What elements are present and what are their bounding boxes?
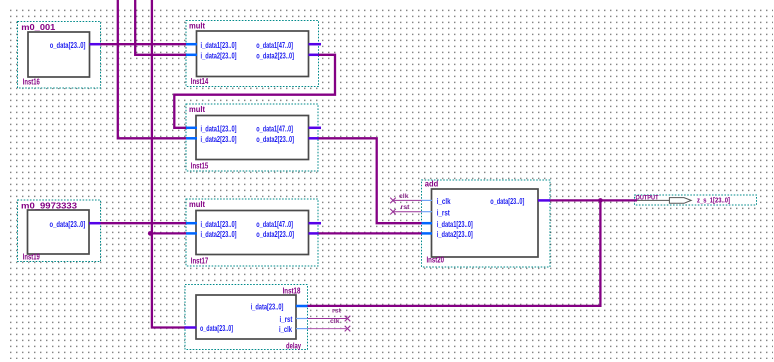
output stub Inst16.o_data [90,43,101,46]
wire Inst17.o_data2 to Inst20.i_data2 [318,232,422,234]
title mult (Inst15) [189,105,205,114]
label Inst20 [427,255,445,264]
input stub Inst14.i_data2 [186,54,197,57]
port texts Inst17 [201,220,295,239]
svg-text:add: add [425,180,439,189]
inner box of Inst17 [196,211,309,255]
block Inst17 (mult) dashed boundary [186,199,318,266]
port texts Inst20 [437,197,525,239]
label Inst17 [191,256,209,265]
svg-text:mult: mult [189,200,205,209]
svg-text:o_data2[23..0]: o_data2[23..0] [256,230,294,239]
inner box of Inst19 [28,210,90,254]
input stub Inst17.i_data1 [186,222,197,225]
clk net label at delay [330,319,340,325]
title mult (Inst17) [189,200,205,209]
svg-text:o_data2[23..0]: o_data2[23..0] [256,51,294,60]
thin clk net wire to Inst20.i_clk [393,199,422,201]
svg-text:o_data1[47..0]: o_data1[47..0] [256,41,293,50]
inner box of Inst18 [196,295,296,339]
output pin symbol [669,198,691,204]
junction dot at (600.4,200.4) [598,198,603,203]
rst net label at add [401,205,410,211]
input stub Inst14.i_data1 [186,43,197,46]
dangling output stub Inst14.o_data1 [309,43,322,46]
inner box of Inst15 [196,116,309,160]
output connector z_s_1 dashed boundary [635,195,757,205]
svg-text:Inst16: Inst16 [23,77,40,86]
wire branch to Inst17.i_data2 from x=152 vertical [151,232,187,234]
block Inst15 (mult) dashed boundary [186,104,318,171]
label Inst19 [23,253,40,262]
svg-text:o_data[23..0]: o_data[23..0] [50,220,86,229]
input stub Inst15.i_data1 [186,127,197,130]
svg-text:i_data[23..0]: i_data[23..0] [251,303,284,312]
thin clk stub Inst18.i_clk [296,328,308,330]
thin clk stub Inst20.i_clk [422,199,433,201]
svg-text:mult: mult [189,105,205,114]
svg-text:mult: mult [189,21,205,30]
title m0_9973333 [21,201,78,210]
inner box of Inst20 [432,189,539,257]
input stub Inst17.i_data2 [186,232,197,235]
dangling output stub Inst15.o_data1 [309,127,322,130]
title add [425,180,439,189]
wire loop Inst14.o_data2 to Inst15.i_data1 [174,55,335,128]
dangling output stub Inst17.o_data1 [309,222,322,225]
svg-text:i_data2[23..0]: i_data2[23..0] [201,230,237,239]
inner box of Inst16 [28,32,90,77]
svg-text:i_data1[23..0]: i_data1[23..0] [201,41,237,50]
svg-text:i_data1[23..0]: i_data1[23..0] [201,220,237,229]
svg-text:i_clk: i_clk [279,325,292,334]
svg-text:Inst15: Inst15 [191,161,209,170]
X connector rst at delay [345,316,351,322]
output stub Inst18.o_data [185,326,197,329]
wire Inst20.o_data to OUTPUT and down to delay.i_data [308,200,638,306]
thin rst net wire from Inst18.i_rst [308,318,348,320]
wire vertical net from top to Inst14.i_data2 [135,0,186,55]
svg-text:o_data[23..0]: o_data[23..0] [50,41,86,50]
port texts Inst18 [200,303,293,335]
clk net label at add [399,194,409,200]
OUTPUT label [636,196,659,202]
svg-text:i_rst: i_rst [437,208,450,217]
block Inst19 (m0_9973333) dashed boundary [18,200,101,262]
label Inst15 [191,161,209,170]
svg-text:i_data1[23..0]: i_data1[23..0] [201,124,237,133]
svg-text:o_data1[47..0]: o_data1[47..0] [256,124,293,133]
svg-text:Inst14: Inst14 [191,77,209,86]
svg-text:m0_9973333: m0_9973333 [21,201,78,210]
svg-text:Inst18: Inst18 [283,286,301,295]
svg-text:delay: delay [286,341,301,350]
title mult (Inst14) [189,21,205,30]
port texts Inst14 [201,41,295,61]
svg-text:Inst17: Inst17 [191,256,209,265]
svg-text:rst: rst [401,205,410,211]
thin rst stub Inst18.i_rst [296,318,308,320]
input stub Inst20.i_data1 [422,222,433,225]
label Inst14 [191,77,209,86]
input stub Inst18.i_data [296,305,308,308]
inner box of Inst14 [197,31,309,77]
svg-text:z_s_1[23..0]: z_s_1[23..0] [697,195,730,204]
rst net label at delay [332,309,341,315]
wire Inst19.o_data to Inst17.i_data1 [100,222,187,224]
thin clk net wire from Inst18.i_clk [308,328,348,330]
svg-text:i_data2[23..0]: i_data2[23..0] [201,135,237,144]
thin rst net wire to Inst20.i_rst [393,211,422,213]
wire net1: m0_001.o_data to Inst14.i_data1 [100,43,187,45]
wire Inst15.o_data2 to Inst20.i_data1 [318,138,422,223]
svg-text:i_data2[23..0]: i_data2[23..0] [437,230,473,239]
svg-text:i_data1[23..0]: i_data1[23..0] [437,220,473,229]
svg-text:m0_001: m0_001 [21,23,56,32]
block Inst20 (add) dashed boundary [422,180,551,267]
output stub Inst19.o_data [89,222,101,225]
input stub Inst15.i_data2 [186,137,197,140]
input stub Inst20.i_data2 [422,232,433,235]
junction dot at (150.3,233.4) [148,231,153,236]
title m0_001 [21,23,56,32]
svg-text:o_data[23..0]: o_data[23..0] [490,197,524,206]
title delay [286,341,301,350]
wire vertical net from top to Inst15.i_data2 [118,0,187,138]
thin rst stub Inst20.i_rst [422,211,433,213]
output stub Inst20.o_data [538,199,550,202]
label Inst18 [283,286,301,295]
output stub Inst14.o_data2 [309,54,319,57]
X connector rst at add [390,209,396,215]
wire delay.o_data net: vertical x=152 from top to delay output [152,0,185,328]
svg-text:Inst19: Inst19 [23,253,40,262]
output stub Inst17.o_data2 [309,232,319,235]
svg-text:i_clk: i_clk [437,197,451,206]
label Inst16 [23,77,40,86]
output stub Inst15.o_data2 [309,137,319,140]
port text Inst16.o_data [50,41,86,50]
svg-text:i_rst: i_rst [280,315,293,324]
port text Inst19.o_data [50,220,86,229]
X connector clk at add [390,198,396,204]
svg-text:o_data2[23..0]: o_data2[23..0] [256,135,294,144]
X connector clk at delay [345,326,351,332]
block Inst16 (m0_001) dashed boundary [18,22,101,89]
svg-text:clk: clk [399,194,409,200]
svg-text:o_data[23..0]: o_data[23..0] [200,324,233,333]
port texts Inst15 [201,124,295,144]
svg-text:o_data1[47..0]: o_data1[47..0] [256,220,293,229]
svg-text:rst: rst [332,309,341,315]
block Inst14 (mult) dashed boundary [186,21,319,87]
svg-text:i_data2[23..0]: i_data2[23..0] [201,51,237,60]
output net name z_s_1[23..0] [697,195,730,204]
block Inst18 (delay) dashed boundary [185,285,308,350]
svg-text:clk: clk [330,319,340,325]
output pin lead line [637,199,670,201]
svg-text:Inst20: Inst20 [427,255,445,264]
